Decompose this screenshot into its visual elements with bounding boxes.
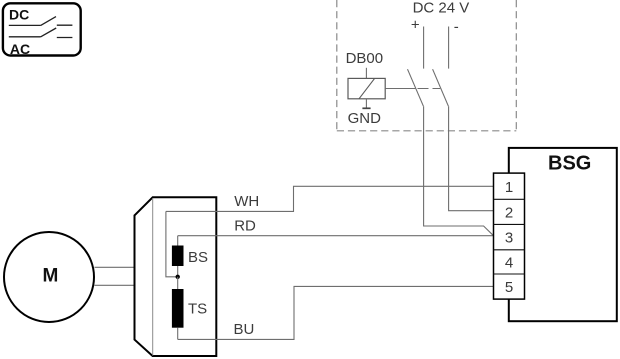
wire BS top to RD: [177, 236, 179, 246]
svg-text:BU: BU: [234, 321, 255, 338]
wire BU to terminal 5: [178, 286, 494, 339]
svg-text:4: 4: [505, 254, 513, 271]
wire BS bottom to node: [177, 266, 179, 277]
switch contact DC: [9, 17, 73, 26]
svg-text:BSG: BSG: [548, 153, 591, 175]
control unit BSG: [509, 148, 617, 321]
motor M: [4, 232, 94, 322]
svg-text:1: 1: [505, 179, 513, 196]
svg-text:2: 2: [505, 204, 513, 221]
svg-text:M: M: [42, 265, 58, 286]
terminal strip: [494, 173, 525, 299]
wire WH to terminal 1: [166, 186, 494, 211]
switch arm +: [408, 69, 424, 106]
wire node to TS: [177, 277, 179, 289]
wire TS bottom: [177, 328, 179, 340]
svg-text:DC: DC: [9, 7, 29, 23]
svg-text:DB00: DB00: [346, 50, 384, 67]
connector housing: [135, 197, 217, 356]
svg-text:TS: TS: [188, 301, 207, 318]
temperature sensor TS: [172, 289, 184, 328]
svg-text:WH: WH: [234, 193, 259, 210]
wire WH feed inside connector: [166, 211, 178, 276]
svg-text:RD: RD: [234, 217, 256, 234]
svg-text:-: -: [454, 18, 459, 35]
svg-text:+: +: [411, 17, 420, 34]
switch arm -: [433, 69, 449, 106]
wire + supply upper: [423, 27, 425, 69]
switch contact AC: [9, 28, 73, 38]
junction node: [176, 275, 180, 279]
svg-text:BS: BS: [188, 249, 208, 266]
wire - supply lower to terminal 2: [449, 106, 494, 211]
relay coil DB00: [365, 68, 367, 79]
DC/AC selector box: [3, 3, 81, 55]
wire RD to terminal 3: [178, 235, 494, 237]
ground: [365, 99, 367, 108]
housing seam: [152, 198, 154, 356]
svg-text:DC 24 V: DC 24 V: [413, 0, 470, 17]
wire + supply lower to terminal 3: [424, 106, 494, 236]
motor shaft: [95, 267, 136, 285]
wire - supply upper: [448, 27, 450, 69]
svg-text:AC: AC: [10, 41, 30, 57]
svg-text:5: 5: [505, 279, 513, 296]
svg-text:3: 3: [505, 230, 513, 247]
dashed supply enclosure: [337, 0, 517, 131]
wire relay to switch arm: [385, 88, 416, 90]
brake sensor BS: [172, 246, 184, 267]
svg-text:GND: GND: [348, 110, 382, 127]
dashed mechanical link: [418, 88, 441, 90]
